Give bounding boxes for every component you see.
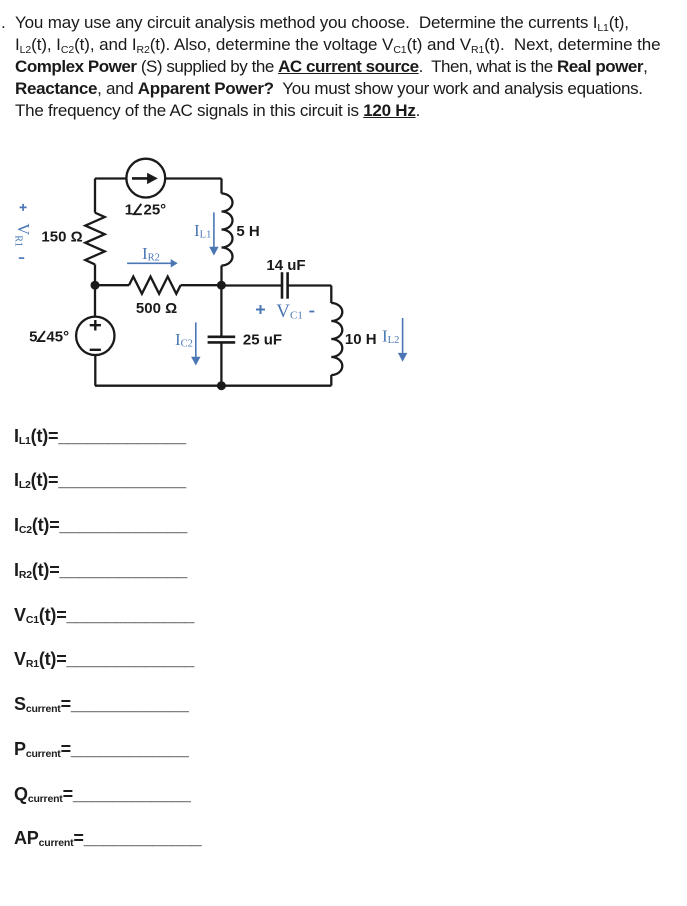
svg-text:VR1: VR1 [12, 223, 33, 247]
wire top horizontal right of source [165, 177, 222, 179]
wire bottom [95, 385, 331, 387]
wire below L1 [220, 266, 222, 286]
svg-text:5 H: 5 H [236, 223, 259, 240]
label 500 ohm [136, 300, 177, 317]
svg-text:IR2: IR2 [142, 244, 160, 264]
capacitor C2 25uF [208, 285, 236, 386]
inductor L2 10H [331, 303, 342, 375]
label VR1 polarity rotated [12, 204, 33, 258]
label 5 H [236, 223, 259, 240]
node B junction dot mid-middle [217, 281, 226, 290]
wire below R1 [94, 264, 96, 285]
node A junction dot left-middle [91, 281, 100, 290]
paragraph [15, 12, 687, 122]
voltage source V1 [76, 285, 114, 386]
label IL2 text [382, 327, 399, 347]
svg-text:150 Ω: 150 Ω [41, 229, 82, 246]
svg-text:45°: 45° [46, 328, 69, 345]
current source I1 [126, 159, 165, 198]
label VC1 polarity [256, 301, 314, 322]
wire middle right [181, 284, 222, 286]
label 25 uF [243, 332, 282, 349]
label 14 uF [266, 257, 305, 274]
svg-text:5: 5 [29, 328, 37, 345]
resistor R1 150 ohm [85, 213, 104, 265]
label IL2 current arrow [398, 318, 407, 362]
svg-text:IC2: IC2 [175, 330, 193, 350]
label IR2 current arrow [127, 259, 178, 267]
wire top-left vertical [94, 179, 96, 213]
answer rows [14, 424, 186, 448]
wire top-right vertical into inductor [220, 179, 222, 194]
wire middle left [95, 284, 129, 286]
label IL1 text [194, 221, 211, 241]
label 1 angle 25 [125, 201, 166, 218]
wire top horizontal left of source [95, 177, 127, 179]
label IC2 text [175, 330, 193, 350]
label IL1 current arrow [209, 212, 218, 255]
svg-text:10 H: 10 H [345, 331, 377, 348]
svg-text:25 uF: 25 uF [243, 332, 282, 349]
label 5 angle 45 [29, 328, 69, 345]
label IC2 current arrow [191, 322, 200, 365]
svg-text:500 Ω: 500 Ω [136, 300, 177, 317]
resistor R2 500 ohm [129, 277, 181, 294]
inductor L1 5H [222, 194, 233, 266]
circuit schematic SVG [0, 140, 450, 440]
svg-text:IL2: IL2 [382, 327, 399, 347]
label IR2 text [142, 244, 160, 264]
capacitor C1 14uF [221, 272, 331, 299]
svg-text:14 uF: 14 uF [266, 257, 305, 274]
label 10 H [345, 331, 377, 348]
problem number period [1, 12, 6, 34]
node C junction dot bottom [217, 381, 226, 390]
svg-text:1: 1 [125, 201, 133, 218]
svg-text:25°: 25° [144, 201, 167, 218]
wire below L2 [330, 375, 332, 386]
svg-text:VC1: VC1 [276, 301, 303, 322]
label 150 ohm [41, 229, 82, 246]
svg-text:IL1: IL1 [194, 221, 211, 241]
wire right-top vertical into L2 [330, 286, 332, 304]
